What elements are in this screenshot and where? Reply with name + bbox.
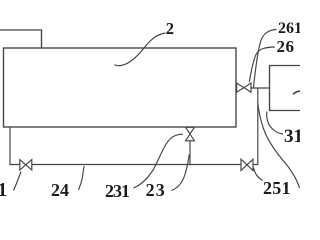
label 23: [146, 181, 166, 199]
valve 251 (bowtie on bottom right): [241, 159, 253, 170]
leader for label 26: [249, 47, 274, 82]
label 31: [284, 127, 303, 146]
leader for label 251: [254, 168, 263, 181]
leader for label 261: [253, 30, 276, 89]
leader for label 1: [14, 172, 22, 191]
wire: pipe 261 from valve 26 to box: [251, 87, 270, 89]
tank 2 (main vessel rectangle): [4, 48, 237, 127]
wire: pipe 23 below valve 231: [189, 141, 191, 165]
wire: bottom return pipe 24: [32, 164, 241, 166]
wire: tank bottom outlet downpipe to valve 1: [10, 127, 20, 165]
label 1: [0, 181, 7, 201]
label 231: [105, 182, 129, 200]
label 2: [166, 21, 174, 38]
leader for label 31: [267, 112, 283, 135]
valve 1 (bowtie, bottom-left): [20, 160, 32, 170]
label 261: [278, 21, 302, 37]
inlet duct (top-left, clipped by image edge): [0, 30, 42, 48]
valve 26 (bowtie on tank right wall): [237, 83, 251, 92]
leader for label 2: [115, 33, 166, 66]
wire: right riser pipe (junction down to valve 251): [253, 88, 258, 165]
wire: curve to off-image label (bottom-right): [258, 103, 300, 188]
leader for label 231: [134, 134, 184, 188]
wire: leader stub inside box 3 (clipped): [293, 91, 300, 94]
leader for label 24: [79, 166, 85, 190]
valve 231 (vertical bowtie on tank bottom): [186, 127, 195, 141]
label 251: [263, 179, 291, 197]
box 3 (right vessel, clipped by image edge): [270, 66, 301, 111]
leader for label 23: [172, 155, 190, 191]
label 24: [51, 181, 69, 199]
label 26: [277, 38, 295, 55]
